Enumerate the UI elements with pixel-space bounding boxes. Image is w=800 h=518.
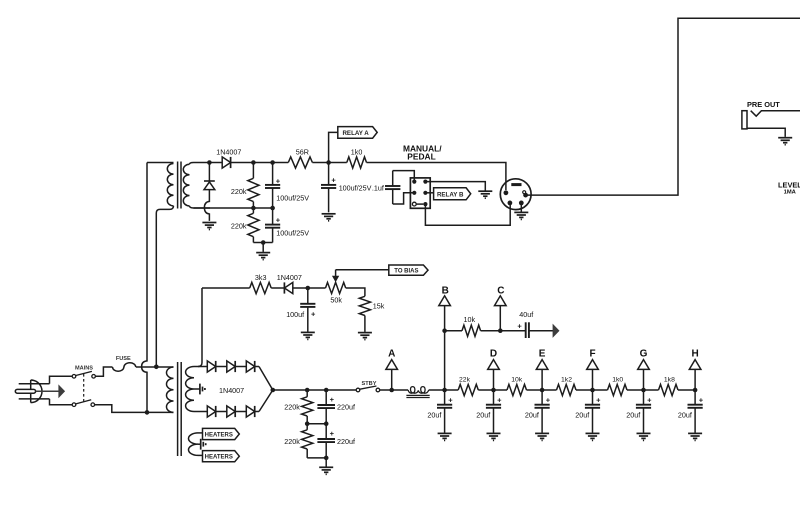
ground 20uf F xyxy=(586,432,600,434)
capacitor 220uf (upper) xyxy=(325,390,327,405)
svg-text:G: G xyxy=(640,349,648,360)
node G xyxy=(643,369,645,390)
svg-text:20uf: 20uf xyxy=(525,411,539,420)
diode 1N4007 string (lower rectifier) xyxy=(207,406,215,417)
resistor 220k (HT bleeder upper) xyxy=(306,390,308,397)
svg-text:PEDAL: PEDAL xyxy=(407,152,435,162)
potentiometer 50k xyxy=(326,282,346,293)
node B screen tap xyxy=(442,328,447,333)
node bias filter junction xyxy=(306,286,311,291)
svg-text:+: + xyxy=(448,396,453,405)
ground below shunt diode xyxy=(202,222,216,224)
svg-text:+: + xyxy=(311,310,316,319)
arrow feed out xyxy=(553,325,559,337)
DIN pin left xyxy=(504,190,509,195)
node F junction xyxy=(590,388,595,393)
node A junction xyxy=(389,388,394,393)
ground bias filter xyxy=(301,331,315,333)
HT center tap ground xyxy=(194,388,200,390)
wire choke to 22k xyxy=(429,389,459,391)
svg-text:1N4007: 1N4007 xyxy=(219,386,244,395)
pot wiper arrow xyxy=(335,270,337,277)
wire rectifier output diagonals xyxy=(259,367,273,412)
mains plug xyxy=(30,380,32,403)
wire plug to mains switch xyxy=(50,376,73,384)
transformer T1 core xyxy=(177,162,179,209)
svg-text:1N4007: 1N4007 xyxy=(216,147,241,156)
ground switch common xyxy=(478,190,492,192)
node A xyxy=(391,369,393,390)
wire to RELAY A flag xyxy=(329,132,338,162)
node E xyxy=(541,369,543,390)
wire fuse to T2 primary xyxy=(136,366,174,368)
svg-text:+: + xyxy=(699,396,704,405)
svg-text:+: + xyxy=(596,396,601,405)
svg-text:220k: 220k xyxy=(284,403,300,412)
ground 20uf E xyxy=(535,432,549,434)
capacitor 20uf (F) xyxy=(592,390,594,405)
switch DPDT manual/pedal box xyxy=(410,178,430,208)
wire 10k to C xyxy=(481,330,526,332)
svg-text:MAINS: MAINS xyxy=(75,366,93,372)
capacitor 40uf xyxy=(525,322,527,338)
svg-text:220uf: 220uf xyxy=(337,403,355,412)
wire HT bleeder mid link xyxy=(307,423,326,425)
capacitor 20uf (H) xyxy=(694,390,696,405)
wire 1k2 to F xyxy=(576,389,608,391)
svg-text:10k: 10k xyxy=(511,376,523,383)
wire 22k to D xyxy=(478,389,507,391)
capacitor 20uf (B) xyxy=(444,390,446,405)
svg-text:HEATERS: HEATERS xyxy=(205,432,233,438)
choke core xyxy=(406,394,429,396)
node C junction xyxy=(498,328,503,333)
wire HT top to bias row xyxy=(198,288,202,367)
ground 20uf H xyxy=(688,432,702,434)
ground 15k xyxy=(358,332,372,334)
switch contacts xyxy=(412,180,416,184)
ground PRE OUT jack xyxy=(778,137,792,139)
resistor 10k (screen) xyxy=(445,330,462,332)
svg-text:220k: 220k xyxy=(231,222,247,231)
node T1 secondary top junction xyxy=(207,160,212,165)
wire wiper to TO BIAS flag xyxy=(336,269,389,271)
transformer T2 heater winding xyxy=(188,433,198,456)
capacitor 20uf (E) xyxy=(541,390,543,405)
wire switch bottom to DIN pin xyxy=(425,203,510,225)
wire rail diode to 56R xyxy=(231,162,289,164)
wire 40uf to arrow xyxy=(529,330,553,332)
svg-text:1N4007: 1N4007 xyxy=(277,273,302,282)
wire bleeder bottom link xyxy=(253,242,272,244)
svg-text:PRE OUT: PRE OUT xyxy=(747,100,780,109)
DIN pin bottom-right xyxy=(519,201,524,206)
wire B+ rail to standby switch xyxy=(273,389,356,391)
node G junction xyxy=(641,388,646,393)
node relay A tap xyxy=(326,160,331,165)
svg-text:10k: 10k xyxy=(464,315,476,324)
svg-text:RELAY B: RELAY B xyxy=(437,191,464,198)
node mid rail/220k xyxy=(251,206,256,211)
svg-text:1k0: 1k0 xyxy=(351,148,363,157)
wire mid rail xyxy=(194,207,273,209)
node D junction xyxy=(491,388,496,393)
svg-text:100uf/25V: 100uf/25V xyxy=(276,194,309,203)
transformer T2 core xyxy=(177,362,179,456)
svg-text:56R: 56R xyxy=(296,148,309,157)
resistor 1k0 (relay rail) xyxy=(347,157,367,168)
capacitor 100uf/25V (relay reservoir) xyxy=(328,163,330,185)
wire jack sleeve to ground xyxy=(747,128,785,137)
svg-text:+: + xyxy=(647,396,652,405)
node H xyxy=(694,369,696,390)
wire standby to node A xyxy=(380,389,408,391)
svg-text:1k2: 1k2 xyxy=(561,376,572,383)
diode 1N4007 string (upper rectifier) xyxy=(207,361,215,372)
flag HEATERS (lower) xyxy=(203,451,240,462)
svg-text:100uf/25V: 100uf/25V xyxy=(339,183,372,192)
resistor 1k8 xyxy=(659,384,679,395)
capacitor 220uf (lower) xyxy=(325,424,327,439)
svg-text:20uf: 20uf xyxy=(678,411,692,420)
node rail/220k junction xyxy=(251,160,256,165)
wire rail to DIN socket xyxy=(367,163,506,191)
node H junction xyxy=(693,388,698,393)
ground 20uf G xyxy=(637,432,651,434)
svg-text:20uf: 20uf xyxy=(575,411,589,420)
wire .1uf top to switch xyxy=(393,171,415,182)
svg-text:1MA: 1MA xyxy=(784,189,797,195)
node B xyxy=(444,306,446,390)
flag TO BIAS xyxy=(389,265,428,275)
transformer T2 HT secondary winding xyxy=(186,367,194,412)
svg-text:RELAY A: RELAY A xyxy=(342,130,369,137)
node mid rail/100uf xyxy=(270,206,275,211)
svg-text:40uf: 40uf xyxy=(519,310,533,319)
wire switch top-right to ground xyxy=(425,182,485,191)
ground relay reservoir xyxy=(322,213,336,215)
flag HEATERS (upper) xyxy=(203,428,240,439)
node D xyxy=(493,369,495,390)
svg-text:1k0: 1k0 xyxy=(612,376,623,383)
svg-text:FUSE: FUSE xyxy=(116,356,131,362)
node B rail junction xyxy=(442,388,447,393)
svg-text:3k3: 3k3 xyxy=(255,273,267,282)
resistor 56R xyxy=(288,157,312,168)
svg-text:B: B xyxy=(442,286,449,297)
wire T1 primary feed (hops fuse line, joins lower mains line) xyxy=(142,163,147,413)
node fused line / T1 feed xyxy=(154,365,159,370)
svg-text:+: + xyxy=(276,215,281,224)
DIN pin bottom-left xyxy=(508,201,513,206)
svg-text:20uf: 20uf xyxy=(626,411,640,420)
svg-text:+: + xyxy=(517,321,522,330)
flag RELAY B xyxy=(434,188,471,200)
svg-text:H: H xyxy=(691,349,698,360)
earth pin arrow xyxy=(36,390,59,392)
svg-text:HEATERS: HEATERS xyxy=(205,455,233,461)
wire T1 primary bottom lead down to fused mains line xyxy=(156,206,173,367)
svg-text:15k: 15k xyxy=(373,302,385,311)
node bleeder bottom xyxy=(324,456,329,461)
resistor 10k (rail) xyxy=(507,384,527,395)
ground 20uf D xyxy=(487,432,501,434)
diode 1N4007 (relay rail) xyxy=(222,157,230,168)
svg-text:LEVEL: LEVEL xyxy=(778,181,800,190)
node 220uf tap xyxy=(324,388,329,393)
wire 1k0 to G xyxy=(627,389,659,391)
node F xyxy=(592,369,594,390)
ground DIN xyxy=(520,205,522,212)
node 220k bleeder tap xyxy=(305,388,310,393)
capacitor 20uf (D) xyxy=(493,390,495,405)
DIN pin right xyxy=(523,193,528,198)
capacitor 100uf/25V (upper) xyxy=(272,163,274,185)
svg-text:+: + xyxy=(497,396,502,405)
svg-text:TO BIAS: TO BIAS xyxy=(394,269,418,275)
resistor 1k2 xyxy=(557,384,577,395)
resistor 220k (lower bleeder) xyxy=(252,208,254,213)
node E junction xyxy=(540,388,545,393)
wire bias row to 3k3 xyxy=(202,287,250,289)
DIN keyway xyxy=(511,183,521,186)
svg-text:D: D xyxy=(490,349,497,360)
svg-text:100uf: 100uf xyxy=(286,310,304,319)
resistor 22k xyxy=(458,384,478,395)
svg-text:20uf: 20uf xyxy=(427,411,441,420)
transformer T2 primary winding xyxy=(166,367,173,412)
wire relay supply rail xyxy=(209,162,222,164)
wire 1k8 to H xyxy=(678,389,695,391)
svg-text:.1uf: .1uf xyxy=(372,184,384,193)
resistor 15k xyxy=(359,296,370,315)
flag RELAY A xyxy=(338,127,377,139)
svg-text:+: + xyxy=(330,395,335,404)
svg-text:220k: 220k xyxy=(231,187,247,196)
svg-text:22k: 22k xyxy=(459,376,471,383)
connector DIN socket outline xyxy=(500,179,531,210)
svg-text:220uf: 220uf xyxy=(337,437,355,446)
capacitor 20uf (G) xyxy=(643,390,645,405)
wire pot to 15k xyxy=(346,288,365,296)
wire .1uf bottom to switch xyxy=(393,193,415,204)
capacitor .1uf xyxy=(392,171,394,186)
svg-text:+: + xyxy=(331,176,336,185)
svg-text:20uf: 20uf xyxy=(476,411,490,420)
transformer T1 secondary winding xyxy=(183,164,189,206)
node rail/100uf junction xyxy=(270,160,275,165)
node bleeder ground junction xyxy=(261,240,266,245)
wire lower mains line xyxy=(95,405,174,413)
wire 56R to 1k0 xyxy=(312,162,346,164)
node rectifier output xyxy=(271,388,276,393)
svg-text:+: + xyxy=(276,176,281,185)
node C xyxy=(499,306,501,331)
svg-text:+: + xyxy=(546,396,551,405)
inductor choke xyxy=(408,387,429,394)
svg-text:C: C xyxy=(497,286,504,297)
diode shunt (vertical, cathode up) xyxy=(208,163,210,182)
svg-text:+: + xyxy=(330,429,335,438)
wire switch to RELAY B flag xyxy=(425,192,433,194)
heater center tap ground xyxy=(198,443,201,445)
ground HT bleeder xyxy=(325,458,327,467)
capacitor 100uf (bias filter) xyxy=(307,288,309,304)
svg-text:A: A xyxy=(388,349,395,360)
wire 10k to E xyxy=(527,389,557,391)
ground 20uf B xyxy=(438,432,452,434)
ground bleeder network xyxy=(262,243,264,252)
svg-text:1k8: 1k8 xyxy=(664,376,675,383)
resistor 220k (upper bleeder) xyxy=(252,163,254,179)
resistor 1k0 (rail) xyxy=(608,384,628,395)
diode 1N4007 (bias, cathode left) xyxy=(271,287,284,289)
wire switch to fuse xyxy=(95,367,112,376)
svg-text:E: E xyxy=(539,349,546,360)
node lower mains / T1 feed xyxy=(145,410,150,415)
svg-text:F: F xyxy=(589,349,595,360)
wire HT bleeder bottom link xyxy=(307,457,326,459)
resistor 3k3 xyxy=(250,282,272,293)
svg-text:100uf/25V: 100uf/25V xyxy=(276,229,309,238)
capacitor 100uf/25V (lower) xyxy=(272,208,274,225)
svg-text:220k: 220k xyxy=(284,437,300,446)
wire bias diode to pot xyxy=(293,287,326,289)
resistor 220k (HT bleeder lower) xyxy=(306,424,308,430)
transformer T1 primary winding xyxy=(147,162,174,164)
svg-text:50k: 50k xyxy=(330,295,342,304)
wire DIN to preamp (top right) xyxy=(527,18,800,195)
